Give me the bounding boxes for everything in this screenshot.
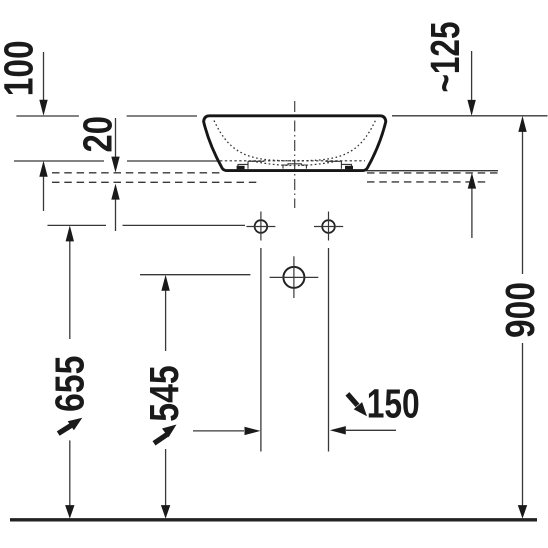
mounting step outline left <box>238 161 248 169</box>
adjustable marker arrow 655 <box>58 418 82 434</box>
dimension 150 left line <box>193 430 244 432</box>
centerline of basin (dash-dot) <box>294 101 296 208</box>
faucet hole left crosshair <box>246 226 275 228</box>
svg-text:900: 900 <box>497 282 543 338</box>
dimension 150 right line <box>346 429 396 431</box>
faucet hole right circle <box>322 220 335 233</box>
dimension 545 line upper part <box>165 278 167 351</box>
mixer hole circle <box>283 267 304 288</box>
dimension 900 line upper part <box>522 119 524 274</box>
extension line top-left seg2 <box>127 115 197 117</box>
arrowhead 655 up <box>66 225 74 241</box>
fixing tab left <box>237 166 245 170</box>
arrowhead 900 down <box>518 505 527 518</box>
svg-text:~125: ~125 <box>422 22 468 93</box>
arrowhead 655 down <box>65 505 74 518</box>
countertop line left seg1 <box>14 160 104 162</box>
arrowhead 20 down <box>111 157 119 173</box>
dimension 655 line lower part <box>69 440 71 512</box>
adjustable marker arrow 150 <box>347 394 367 416</box>
extension line right of basin bottom <box>366 170 498 172</box>
washbasin outer outline <box>204 116 386 171</box>
dimension 655 line upper part <box>69 229 71 339</box>
mounting bench line left <box>248 160 264 162</box>
extension line for 655 (hole level) seg1 <box>48 224 107 226</box>
dashed countertop line 2 right <box>367 181 489 183</box>
arrowhead 100 down <box>39 100 47 116</box>
fixing tab right <box>345 166 353 170</box>
washbasin bowl bottom dotted arc <box>252 161 337 166</box>
mixer hole crosshair <box>270 276 319 278</box>
dashed countertop line 2 left <box>52 181 261 183</box>
svg-text:545: 545 <box>141 365 187 422</box>
dashed countertop line 1 right <box>367 172 502 174</box>
mounting bench line right <box>325 160 341 162</box>
extension line for 545 (mixer hole level) <box>140 274 250 276</box>
dimension 20 lower line <box>115 187 117 231</box>
faucet hole right crosshair <box>314 226 343 228</box>
countertop line left seg2 <box>127 160 219 162</box>
dimension 900 line lower part <box>522 343 524 512</box>
dimension ~125 upper line <box>471 51 473 112</box>
arrowhead ~125 down <box>467 100 475 116</box>
arrowhead 100 up <box>39 161 47 177</box>
extension line top-left seg1 (basin rim level) <box>16 115 79 117</box>
extension line top-right (rim level to 900 dim) <box>392 115 548 117</box>
dimension 20 upper line <box>115 118 117 169</box>
drain fitting outline <box>283 164 306 169</box>
extension line 150 left (from hole 1 down) <box>260 248 262 452</box>
arrowhead 150 left-pointing <box>330 426 346 434</box>
dimension 100 lower line <box>43 164 45 211</box>
extension line 150 right (from hole 2 down) <box>328 248 330 452</box>
arrowhead 545 up <box>161 275 169 291</box>
dimension 100 upper line <box>43 52 45 112</box>
dimension ~125 lower line <box>471 176 473 238</box>
arrowhead 150 right-pointing <box>245 427 261 435</box>
dashed countertop line 1 left <box>52 172 222 174</box>
svg-text:100: 100 <box>0 40 42 96</box>
hidden countertop edge through basin (dotted) <box>220 160 365 162</box>
adjustable marker arrow 545 <box>154 425 177 444</box>
floor line <box>10 518 537 521</box>
faucet hole left circle <box>255 220 268 233</box>
svg-text:20: 20 <box>74 116 120 153</box>
arrowhead 900 up <box>518 116 526 132</box>
arrowhead 20 up <box>111 184 119 200</box>
svg-text:655: 655 <box>47 356 93 413</box>
svg-text:150: 150 <box>367 381 420 427</box>
extension line for 655 (hole level) seg2 <box>123 224 246 226</box>
dimension 545 line lower part <box>165 449 167 512</box>
arrowhead ~125 up <box>468 173 476 189</box>
mounting step outline right <box>341 161 351 169</box>
arrowhead 545 down <box>161 505 170 518</box>
washbasin inner bowl dotted curve <box>214 121 375 161</box>
